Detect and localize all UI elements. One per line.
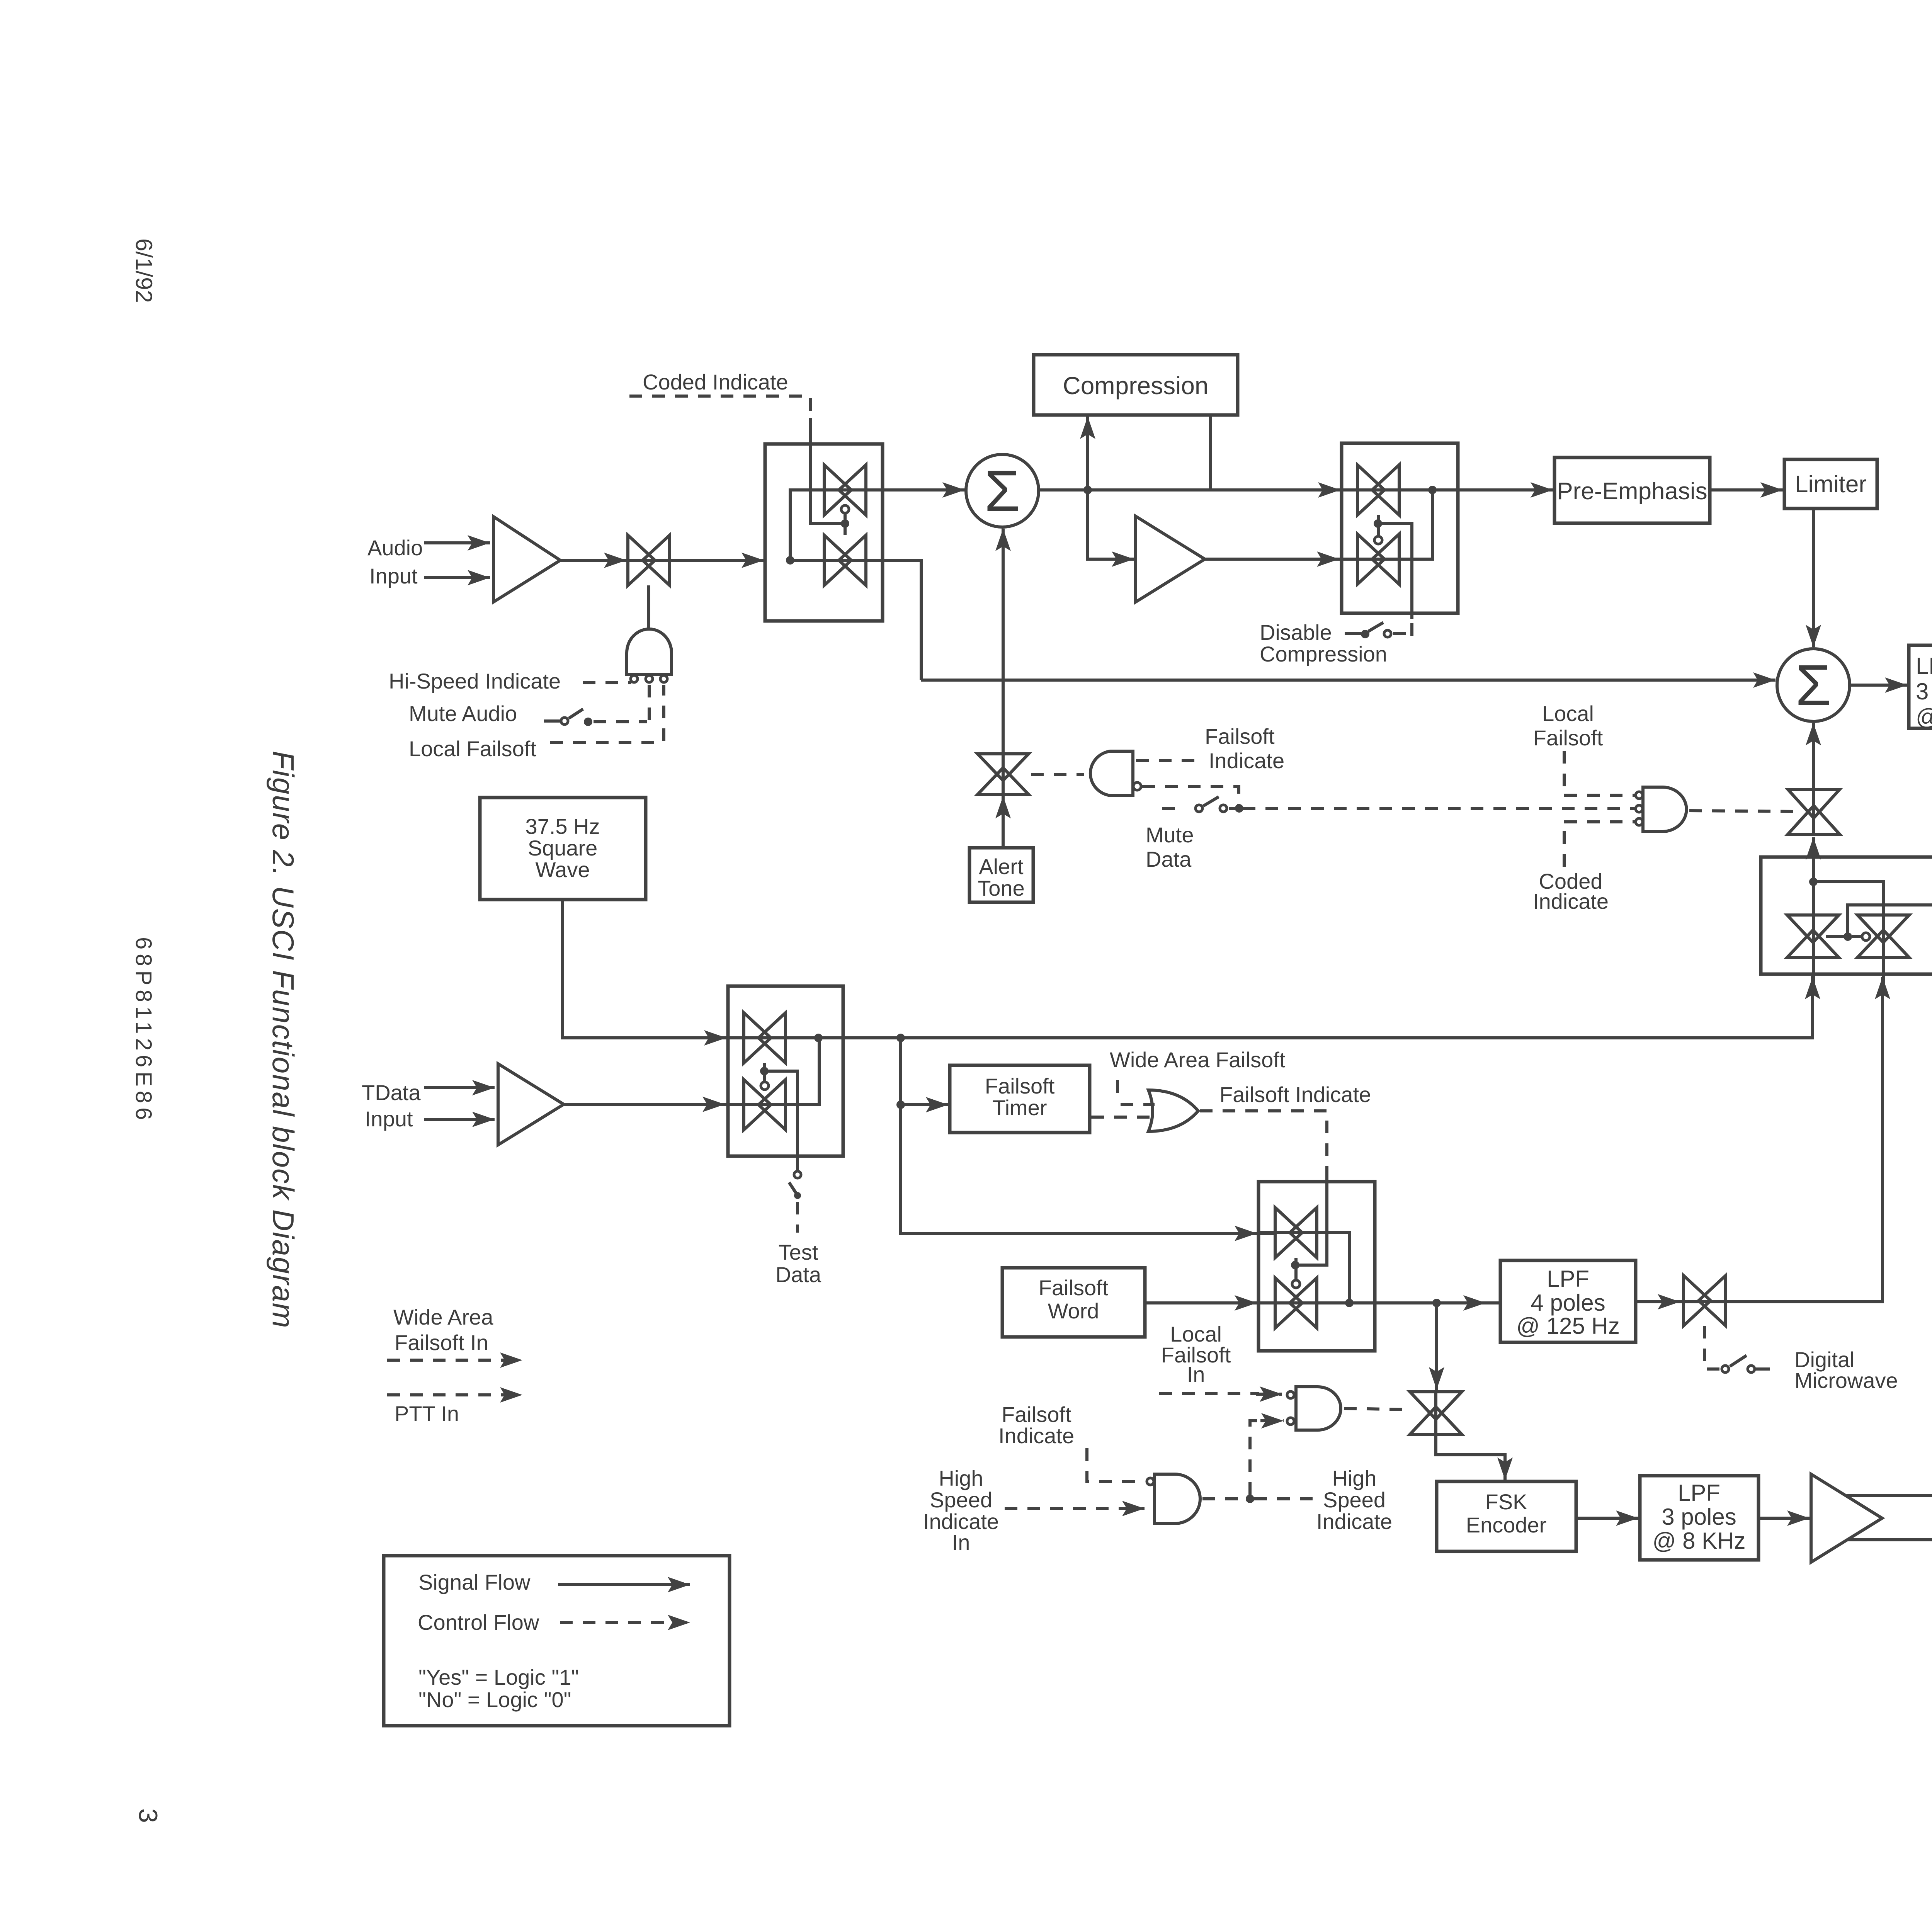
Pre-Emphasis block bbox=[1554, 457, 1710, 523]
wire: failsoft indicate control into block B5 bbox=[1298, 1167, 1327, 1265]
control dash: local failsoft to G1 right bubble bbox=[550, 741, 662, 744]
control dash: long mute-data line to NAND G3 bbox=[1243, 807, 1634, 810]
wire: Pre-Emphasis to Limiter bbox=[1710, 488, 1783, 492]
control dash: high speed indicate in to G5 bbox=[1005, 1507, 1145, 1510]
block B2 (disable compression gate pair) bbox=[1342, 443, 1458, 613]
B4 right mixer M9 bbox=[1857, 915, 1909, 957]
wire: TData line up into M8 bbox=[901, 976, 1813, 1038]
wire: branch to Failsoft Timer bbox=[901, 1103, 948, 1106]
G1 input bubbles bbox=[631, 675, 638, 682]
wire: M7 up into S2 bbox=[1812, 723, 1815, 789]
control dash: wide area failsoft in arrow bbox=[387, 1359, 522, 1362]
svg-text:Failsoft: Failsoft bbox=[1039, 1276, 1109, 1300]
B3 lower mixer M11 bbox=[744, 1080, 786, 1130]
svg-text:Indicate: Indicate bbox=[1209, 748, 1284, 773]
wire: FSK output upper bbox=[1847, 1494, 1932, 1497]
svg-text:37.5 Hz: 37.5 Hz bbox=[526, 814, 600, 838]
svg-text:68P81126E86: 68P81126E86 bbox=[131, 937, 156, 1124]
svg-text:Tone: Tone bbox=[978, 876, 1024, 900]
wire: A2 output to B2 lower mixer bbox=[1205, 558, 1357, 561]
svg-text:Input: Input bbox=[365, 1107, 413, 1131]
wire: branch up to Compression bbox=[1086, 417, 1089, 490]
svg-text:Indicate: Indicate bbox=[1316, 1509, 1392, 1534]
svg-text:3: 3 bbox=[133, 1808, 163, 1823]
control dash: mute audio to G1 middle bubble bbox=[594, 720, 647, 723]
B5 upper mixer M12 bbox=[1275, 1207, 1317, 1258]
svg-text:@ 8 KHz: @ 8 KHz bbox=[1916, 704, 1932, 730]
svg-text:Input: Input bbox=[369, 564, 418, 588]
control dash: hi-speed indicate to G1 left bubble bbox=[583, 681, 631, 684]
B3 upper mixer M10 bbox=[744, 1013, 786, 1063]
B5 lower mixer M13 bbox=[1275, 1278, 1317, 1328]
wire: A1 output to mixer M1 bbox=[560, 559, 626, 562]
wire: M1 control drop to NAND G1 bbox=[647, 585, 650, 630]
B1 wiring: input junction and riser bbox=[786, 556, 794, 565]
wire: B2 output to Pre-Emphasis bbox=[1432, 488, 1553, 492]
svg-text:Local: Local bbox=[1542, 701, 1594, 726]
wire: B3 output junction, drop to failsoft row bbox=[896, 1034, 905, 1042]
summer S1 (sigma) bbox=[966, 454, 1039, 527]
svg-text:Failsoft In: Failsoft In bbox=[395, 1330, 488, 1355]
svg-text:LPF: LPF bbox=[1916, 653, 1932, 679]
svg-text:Speed: Speed bbox=[1323, 1488, 1386, 1512]
svg-text:Data: Data bbox=[776, 1262, 821, 1287]
M2 bottom apex bubble bbox=[841, 505, 849, 513]
M9 left crossing bubble bbox=[1862, 933, 1870, 940]
svg-text:Wave: Wave bbox=[535, 857, 590, 882]
B2 lower mixer M5 bbox=[1357, 534, 1399, 584]
wire: M3 through line bbox=[824, 559, 866, 562]
control dash: M14 to digital microwave switch bbox=[1703, 1326, 1706, 1368]
Limiter block bbox=[1784, 459, 1877, 509]
svg-text:Microwave: Microwave bbox=[1794, 1368, 1898, 1393]
NAND gate G6 (FSK failsoft control) bbox=[1296, 1387, 1341, 1430]
37.5 Hz Square Wave block bbox=[480, 798, 646, 900]
svg-text:Local Failsoft: Local Failsoft bbox=[409, 736, 536, 761]
switch: digital microwave bbox=[1722, 1366, 1729, 1372]
G6 input bubbles bbox=[1287, 1391, 1294, 1398]
M5 top apex bubble bbox=[1374, 536, 1382, 544]
control dash: failsoft timer output into G4 bbox=[1091, 1116, 1155, 1119]
svg-text:Failsoft Indicate: Failsoft Indicate bbox=[1219, 1082, 1371, 1107]
wire: M3 output down to long line bbox=[866, 560, 921, 680]
svg-text:Disable: Disable bbox=[1260, 620, 1332, 645]
wire: M12 apex junction bbox=[1294, 1258, 1298, 1280]
switch: mute data bbox=[1162, 807, 1179, 810]
svg-text:Timer: Timer bbox=[992, 1095, 1047, 1120]
control dash: coded indicate line bbox=[629, 395, 811, 398]
wire: M12 through line bbox=[1259, 1231, 1317, 1234]
B4 left mixer M8 bbox=[1787, 915, 1839, 957]
control dash: G2 top input to Failsoft Indicate bbox=[1136, 759, 1197, 762]
wire: M11 through line and riser bbox=[728, 1103, 786, 1106]
svg-text:Signal Flow: Signal Flow bbox=[418, 1570, 531, 1594]
G5 top input bubble bbox=[1147, 1478, 1154, 1485]
wire: M15 down into FSK Encoder bbox=[1436, 1434, 1505, 1480]
control dash: coded indicate up to G3 bottom input bbox=[1563, 824, 1566, 867]
wire: M10 through line bbox=[728, 1036, 901, 1039]
svg-text:Mute Audio: Mute Audio bbox=[409, 701, 517, 726]
wire: Failsoft Word output to B5 bbox=[1145, 1301, 1257, 1304]
svg-text:Coded Indicate: Coded Indicate bbox=[643, 370, 788, 394]
mixer M6 (alert tone gate, vertical flow) bbox=[978, 754, 1029, 794]
svg-text:Encoder: Encoder bbox=[1466, 1513, 1547, 1537]
svg-text:"Yes" = Logic "1": "Yes" = Logic "1" bbox=[418, 1665, 579, 1689]
svg-text:Data: Data bbox=[1146, 847, 1192, 871]
amplifier A1 (audio input buffer) bbox=[493, 517, 560, 602]
LPF 3 poles 8KHz block (FSK) bbox=[1640, 1476, 1759, 1560]
svg-text:Control Flow: Control Flow bbox=[418, 1610, 539, 1634]
svg-text:Audio: Audio bbox=[367, 536, 423, 560]
wire: LPF4 to mixer M14 bbox=[1636, 1300, 1704, 1303]
control dash: local failsoft down to G3 top input bbox=[1563, 751, 1566, 793]
NAND gate G3 (3-input, audio failsoft control) bbox=[1643, 787, 1687, 832]
wire: long bypass line from B1 lower mixer to S2 bbox=[921, 679, 1776, 682]
Failsoft Timer block bbox=[950, 1065, 1090, 1133]
wire: FSK Encoder to LPF2 bbox=[1576, 1517, 1638, 1520]
svg-text:PTT In: PTT In bbox=[395, 1401, 459, 1426]
wire: TData input leads bbox=[424, 1086, 495, 1089]
svg-text:Square: Square bbox=[528, 836, 598, 860]
wire: Compression output down to B2 bbox=[1209, 415, 1212, 490]
wire: S1 output with branch dot bbox=[1039, 488, 1340, 492]
NAND gate G1 (3 control inputs, dome up) bbox=[627, 629, 672, 674]
switch: disable compression bbox=[1345, 632, 1361, 635]
wire: audio input lower lead bbox=[424, 576, 490, 579]
block B5 (failsoft word select gates) bbox=[1259, 1182, 1375, 1351]
LPF 4 poles 125Hz block bbox=[1500, 1260, 1636, 1342]
svg-text:Figure 2. USCI Functional bloc: Figure 2. USCI Functional block Diagram bbox=[266, 751, 300, 1329]
M13 top apex bubble bbox=[1292, 1280, 1300, 1288]
wire: M4 apex to junction and jog down (disable compression control) bbox=[1377, 515, 1380, 536]
wire: FSK branch down from failsoft line bbox=[1435, 1303, 1438, 1390]
svg-text:LPF: LPF bbox=[1678, 1480, 1720, 1506]
wire: box B4 up into M7 bbox=[1812, 837, 1815, 857]
svg-text:FSK: FSK bbox=[1485, 1490, 1527, 1514]
control dash: G3 output to mixer M7 bbox=[1689, 811, 1796, 811]
amplifier A4 (TData buffer) bbox=[498, 1064, 564, 1145]
G2 lower input bubble bbox=[1133, 782, 1141, 790]
Failsoft Word block bbox=[1002, 1268, 1145, 1337]
mixer M7 (audio failsoft gate, vertical flow) bbox=[1788, 789, 1840, 834]
svg-text:4 poles: 4 poles bbox=[1531, 1290, 1605, 1316]
control dash: PTT in arrow bbox=[387, 1393, 522, 1396]
svg-text:6/1/92: 6/1/92 bbox=[131, 238, 157, 303]
Alert Tone block bbox=[969, 848, 1033, 902]
svg-text:In: In bbox=[952, 1530, 970, 1554]
wire: audio input upper lead bbox=[424, 541, 490, 544]
svg-text:@ 8 KHz: @ 8 KHz bbox=[1653, 1528, 1746, 1554]
wire: M10 apex junction and test-data drop bbox=[763, 1063, 766, 1082]
wire: M13 through line to LPF4 bbox=[1259, 1301, 1499, 1304]
svg-text:Pre-Emphasis: Pre-Emphasis bbox=[1557, 478, 1707, 505]
mixer M1 (audio gate) bbox=[628, 535, 670, 585]
wire: 37.5Hz down and right into block B3 bbox=[563, 900, 726, 1038]
M11 top apex bubble bbox=[761, 1082, 769, 1090]
block B1 (coded/clear audio gate pair) bbox=[765, 444, 883, 621]
wire: M1 to block B1 bbox=[670, 559, 764, 562]
block B4 (hi-speed data mute gates) bbox=[1761, 857, 1932, 974]
svg-text:Failsoft: Failsoft bbox=[1205, 724, 1275, 748]
svg-text:Compression: Compression bbox=[1063, 372, 1208, 400]
LPF 3 poles 8KHz block (audio) bbox=[1909, 645, 1932, 728]
amplifier A5 (FSK output) bbox=[1811, 1474, 1882, 1562]
wire: FSK output lower bbox=[1848, 1538, 1932, 1541]
wire: M12 output riser joining lower line bbox=[1317, 1233, 1349, 1303]
wire: M8 vertical through line with top junction bbox=[1812, 857, 1815, 957]
Compression block bbox=[1034, 355, 1238, 415]
svg-text:Failsoft: Failsoft bbox=[1533, 726, 1603, 750]
svg-text:Test: Test bbox=[779, 1240, 818, 1264]
wire: M2 output to summer S1 bbox=[866, 488, 965, 492]
svg-text:@ 125 Hz: @ 125 Hz bbox=[1516, 1313, 1620, 1339]
svg-text:Limiter: Limiter bbox=[1795, 471, 1867, 498]
AND gate G5 (high speed indicate combine) bbox=[1155, 1474, 1200, 1524]
control dash: M6 to NAND G2 bbox=[1031, 773, 1084, 776]
svg-text:Alert: Alert bbox=[979, 854, 1024, 879]
wire: branch down to amplifier A2 bbox=[1088, 490, 1134, 559]
svg-text:High: High bbox=[1332, 1466, 1376, 1490]
control dash: wide area failsoft into OR gate G4 bbox=[1116, 1080, 1119, 1103]
svg-text:Hi-Speed Indicate: Hi-Speed Indicate bbox=[389, 669, 561, 693]
B1 lower mixer M3 bbox=[824, 535, 866, 585]
svg-text:In: In bbox=[1187, 1362, 1205, 1386]
svg-text:Word: Word bbox=[1048, 1299, 1099, 1323]
svg-text:LPF: LPF bbox=[1547, 1266, 1589, 1292]
summer S2 (sigma) bbox=[1777, 649, 1850, 721]
control dash: junction up to G6 lower input bbox=[1250, 1421, 1264, 1495]
wire: coded indicate control into block B1 bbox=[811, 418, 842, 524]
wire: through lines inside mixers bbox=[628, 559, 670, 562]
svg-text:3 poles: 3 poles bbox=[1662, 1504, 1736, 1530]
FSK Encoder block bbox=[1437, 1481, 1576, 1551]
svg-text:Failsoft: Failsoft bbox=[985, 1074, 1055, 1098]
wire: S2 to LPF bbox=[1850, 684, 1907, 687]
wire: A4 output into B3 bbox=[564, 1103, 742, 1106]
svg-text:Compression: Compression bbox=[1260, 642, 1387, 666]
svg-text:Σ: Σ bbox=[985, 458, 1020, 523]
svg-text:Wide Area: Wide Area bbox=[393, 1305, 493, 1329]
svg-text:Failsoft: Failsoft bbox=[1002, 1402, 1071, 1427]
svg-text:Mute: Mute bbox=[1146, 823, 1194, 847]
switch: test data bbox=[794, 1171, 801, 1178]
wire: Limiter output down to summer S2 bbox=[1812, 509, 1815, 647]
svg-text:Speed: Speed bbox=[930, 1488, 992, 1512]
svg-text:"No" = Logic "0": "No" = Logic "0" bbox=[418, 1687, 571, 1712]
control dash: failsoft indicate to G5 top bubble bbox=[1087, 1448, 1145, 1481]
svg-text:Σ: Σ bbox=[1796, 653, 1832, 718]
B1 upper mixer M2 bbox=[824, 465, 866, 515]
wire: alert tone box to M6 bbox=[1002, 796, 1005, 848]
NAND gate G2 (alert tone control, output left) bbox=[1090, 751, 1133, 796]
svg-text:Indicate: Indicate bbox=[998, 1423, 1074, 1448]
wire: hi-speed control link bbox=[1848, 905, 1932, 937]
wire: M9 feed up from digital microwave mixer bbox=[1726, 977, 1883, 1302]
svg-text:Wide Area Failsoft: Wide Area Failsoft bbox=[1110, 1048, 1286, 1072]
control dash: G4 output to failsoft-indicate rail bbox=[1200, 1111, 1327, 1167]
control dash: G5 output with junction bbox=[1202, 1497, 1246, 1500]
switch: mute audio bbox=[544, 719, 560, 723]
wire: M5 through line bbox=[1342, 558, 1399, 561]
svg-text:High: High bbox=[939, 1466, 983, 1490]
svg-text:Indicate: Indicate bbox=[1533, 889, 1609, 913]
G3 input bubbles bbox=[1636, 792, 1643, 799]
B2 upper mixer M4 bbox=[1357, 465, 1399, 515]
mixer M15 (FSK failsoft gate, vertical flow) bbox=[1410, 1392, 1462, 1434]
amplifier A2 (compression path) bbox=[1136, 516, 1205, 602]
block B3 (test data select gates) bbox=[728, 986, 843, 1156]
wire: S1 bottom feed from alert tone mixer bbox=[1002, 529, 1005, 754]
control dash: G2 lower input to mute data line bbox=[1142, 786, 1239, 804]
wire: LPF2 to amp A5 bbox=[1759, 1517, 1810, 1520]
wire: M5 output riser to upper line bbox=[1399, 490, 1432, 559]
svg-text:3 poles: 3 poles bbox=[1916, 679, 1932, 704]
control dash: G6 output to M15 bbox=[1344, 1408, 1411, 1410]
mixer M14 (digital microwave gate) bbox=[1684, 1276, 1726, 1326]
svg-text:TData: TData bbox=[362, 1080, 421, 1105]
control dash: local failsoft in to G6 top input bbox=[1159, 1392, 1259, 1395]
wire: M2 apex to junction bbox=[844, 513, 847, 535]
OR gate G4 (failsoft indicate) bbox=[1148, 1090, 1198, 1131]
wire: junction jog to M9 top apex bbox=[1813, 882, 1883, 915]
